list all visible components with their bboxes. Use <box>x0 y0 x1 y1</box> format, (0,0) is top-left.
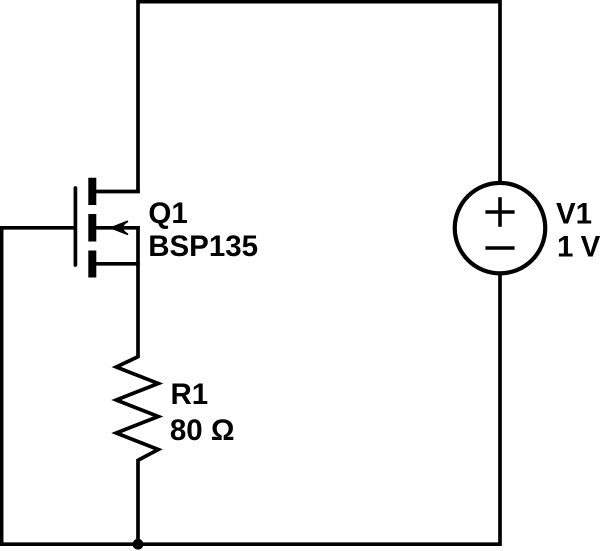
wire: Q1 body/source down to R1 top <box>136 226 140 358</box>
wire: R1 bottom down to junction <box>136 459 140 546</box>
Q1 body arrow <box>111 221 128 234</box>
Q1 source lead <box>92 262 140 266</box>
svg-text:BSP135: BSP135 <box>148 230 258 263</box>
svg-text:1 V: 1 V <box>557 231 600 264</box>
transistor Q1 <box>75 178 258 278</box>
svg-text:V1: V1 <box>556 197 592 230</box>
resistor R1 <box>116 357 234 461</box>
Q1 source channel bar <box>88 251 96 278</box>
V1 circle <box>455 183 546 274</box>
Q1 body lead <box>92 226 140 230</box>
Q1 drain lead <box>92 190 140 194</box>
wire: V1 - terminal down to bottom-right corner and left to junction <box>138 275 500 544</box>
junction (node at R1 bottom / bottom rail) <box>133 539 144 550</box>
V1 plus sign <box>485 210 514 214</box>
Q1 gate bar <box>74 188 78 265</box>
R1 zigzag <box>116 357 158 461</box>
svg-text:80 Ω: 80 Ω <box>170 414 235 447</box>
wire: Q1 drain up, across top, down to V1 + terminal <box>138 2 500 193</box>
Q1 body channel bar <box>88 214 96 242</box>
wire: junction left along bottom, up left side to Q1 gate lead <box>2 228 138 544</box>
Q1 drain channel bar <box>88 178 96 205</box>
svg-text:R1: R1 <box>171 378 209 411</box>
svg-text:Q1: Q1 <box>148 197 187 230</box>
voltage source V1 <box>455 183 600 274</box>
V1 minus sign <box>485 246 514 250</box>
